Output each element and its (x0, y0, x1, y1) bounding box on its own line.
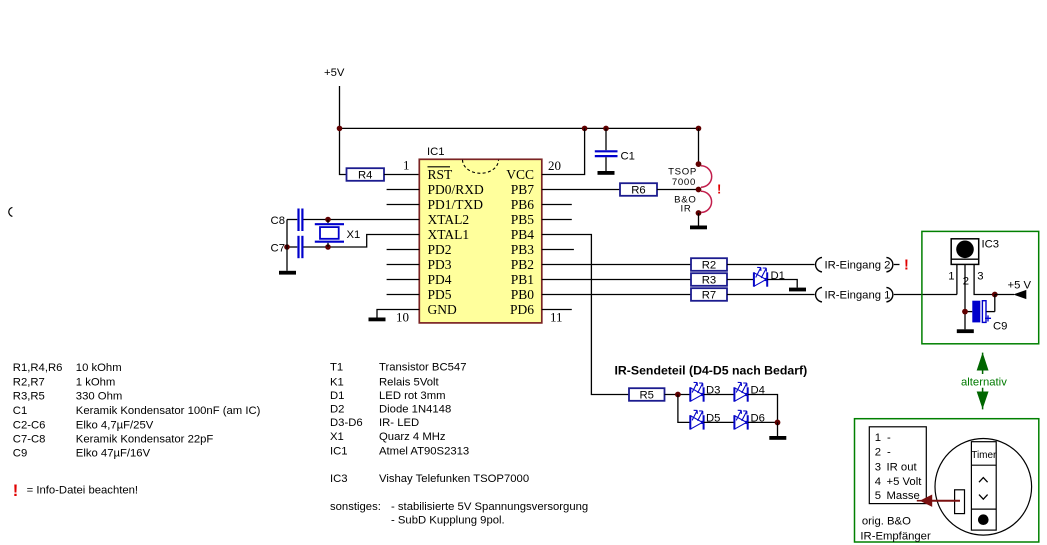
svg-text:IR out: IR out (887, 462, 918, 474)
wire PD6 stub (542, 309, 572, 311)
resistor R6 (620, 183, 657, 197)
svg-text:- SubD Kupplung 9pol.: - SubD Kupplung 9pol. (391, 514, 505, 526)
node LED branch join (775, 420, 781, 426)
wire connector pad bottom to ground (698, 213, 700, 226)
svg-text:!: ! (13, 482, 18, 500)
connector IR-Eingang 1 (816, 287, 893, 302)
wire XTAL2 row (304, 219, 420, 221)
svg-text:PD4: PD4 (428, 272, 452, 287)
ground at D1 (789, 288, 806, 292)
wire PB2 to R2 (542, 264, 691, 266)
svg-text:X1: X1 (330, 431, 344, 443)
ground at IC GND (369, 318, 386, 322)
node LED branch split (675, 392, 681, 398)
LED D4 (734, 382, 748, 401)
svg-text:1: 1 (875, 432, 881, 444)
ground at LED branch (769, 436, 786, 440)
ground at IC3 (957, 329, 974, 333)
svg-text:PD2: PD2 (428, 242, 452, 257)
jumper arc TSOP7000 (701, 166, 712, 187)
svg-text:IR-Eingang 1: IR-Eingang 1 (825, 290, 891, 302)
svg-text:!: ! (717, 182, 721, 197)
svg-text:D3-D6: D3-D6 (330, 417, 363, 429)
parts list left column (13, 362, 261, 460)
label TSOP 7000 (668, 167, 697, 189)
stray parenthesis mark (9, 207, 13, 216)
svg-text:IR-Sendeteil (D4-D5 nach Bedar: IR-Sendeteil (D4-D5 nach Bedarf) (615, 364, 808, 378)
svg-text:D1: D1 (330, 390, 344, 402)
node connector pad middle (696, 187, 702, 193)
svg-text:orig. B&O: orig. B&O (862, 516, 911, 528)
wire PD4 stub (387, 279, 420, 281)
svg-text:- stabilisierte 5V Spannungsve: - stabilisierte 5V Spannungsversorgung (391, 501, 588, 513)
wire R4 to RST pin (384, 174, 419, 176)
svg-text:R7: R7 (702, 290, 716, 302)
receiver keypad column (971, 442, 997, 530)
wire PB1 to R3 (542, 279, 691, 281)
wire R2 to IR-Eingang 2 (727, 264, 815, 266)
svg-text:+5 V: +5 V (1008, 280, 1032, 292)
svg-text:R4: R4 (358, 170, 372, 182)
svg-text:!: ! (904, 258, 909, 274)
wire PD0 stub (387, 189, 420, 191)
svg-text:PB0: PB0 (511, 287, 535, 302)
wire PD5 stub (387, 294, 420, 296)
svg-text:XTAL2: XTAL2 (428, 212, 470, 227)
svg-text:C2-C6: C2-C6 (13, 419, 46, 431)
node junction rail/C1 (603, 126, 609, 132)
svg-text:X1: X1 (347, 229, 361, 241)
svg-text:IC3: IC3 (982, 239, 1000, 251)
svg-text:Diode 1N4148: Diode 1N4148 (379, 404, 451, 416)
wire +5V vertical to R4 (340, 86, 347, 175)
svg-text:PD3: PD3 (428, 257, 452, 272)
svg-text:PB5: PB5 (511, 212, 535, 227)
svg-text:11: 11 (550, 310, 563, 325)
pointer arrow to Masse (917, 495, 960, 506)
svg-text:5: 5 (875, 490, 881, 502)
node connector pad top (696, 161, 702, 167)
svg-text:10 kOhm: 10 kOhm (76, 362, 122, 374)
svg-text:+: + (985, 312, 992, 326)
svg-text:LED rot 3mm: LED rot 3mm (379, 390, 446, 402)
wire IR-Eingang 1 to IC3 pin1 (894, 294, 957, 296)
svg-text:IR-Eingang 2: IR-Eingang 2 (825, 260, 891, 272)
svg-text:1: 1 (403, 158, 410, 173)
svg-text:C1: C1 (621, 151, 635, 163)
svg-text:2: 2 (963, 276, 969, 288)
wire +5V rail (340, 127, 699, 129)
svg-text:+5 Volt: +5 Volt (887, 476, 923, 488)
svg-text:PB6: PB6 (511, 197, 535, 212)
svg-text:IR-Empfänger: IR-Empfänger (860, 531, 931, 543)
svg-text:PB3: PB3 (511, 242, 535, 257)
svg-text:+5V: +5V (324, 67, 345, 79)
receiver side connector (955, 490, 965, 514)
wire PB7 to R6 (542, 189, 620, 191)
wire D1 cathode to ground (767, 280, 797, 288)
node junction on rail at +5V (337, 126, 343, 132)
svg-text:IC1: IC1 (427, 146, 445, 158)
svg-text:C9: C9 (13, 448, 27, 460)
svg-text:GND: GND (428, 302, 457, 317)
svg-text:-: - (887, 432, 891, 444)
alternativ down arrow (978, 388, 988, 410)
svg-text:3: 3 (977, 271, 983, 283)
wire PB3 stub (542, 249, 574, 251)
wire R6 to connector (657, 189, 699, 191)
capacitor C7 (271, 236, 303, 258)
label B&O IR (674, 195, 696, 215)
resistor R7 (691, 288, 727, 302)
svg-text:PB7: PB7 (511, 182, 535, 197)
wire PB4 to R5 (542, 235, 629, 395)
capacitor C9 (965, 295, 1007, 333)
wire PB6 stub (542, 204, 572, 206)
resistor R4 (347, 168, 385, 182)
svg-text:sonstiges:: sonstiges: (330, 501, 381, 513)
svg-text:= Info-Datei beachten!: = Info-Datei beachten! (27, 485, 138, 497)
svg-text:C1: C1 (13, 405, 27, 417)
svg-text:1 kOhm: 1 kOhm (76, 376, 116, 388)
svg-text:Atmel AT90S2313: Atmel AT90S2313 (379, 445, 469, 457)
B&O receiver green frame (855, 419, 1039, 542)
node pin3 +5V junction (992, 292, 998, 298)
wire join to ground (777, 422, 779, 436)
svg-text:R3,R5: R3,R5 (13, 391, 45, 403)
IC3 module green frame (922, 231, 1039, 343)
wire R7 to IR-Eingang 1 (727, 294, 815, 296)
ground at C7/C8 (279, 271, 296, 275)
resistor R3 (691, 273, 727, 287)
wire PB0 to R7 (542, 294, 691, 296)
parts list middle column (330, 362, 588, 527)
svg-text:D2: D2 (330, 404, 344, 416)
svg-text:IC1: IC1 (330, 445, 348, 457)
LED D5 (690, 410, 704, 429)
svg-text:-: - (887, 447, 891, 459)
IC3 pin 1 wire (956, 264, 958, 294)
capacitor C8 (271, 209, 303, 232)
B&O pinout list box (869, 427, 926, 504)
ground at C1 (598, 171, 615, 175)
svg-text:XTAL1: XTAL1 (428, 227, 470, 242)
node C7 left junction (284, 244, 290, 250)
svg-text:4: 4 (875, 476, 881, 488)
svg-text:Timer: Timer (971, 450, 997, 461)
wire branch down to D5 row (678, 395, 690, 423)
svg-text:VCC: VCC (506, 167, 534, 182)
svg-text:20: 20 (548, 158, 561, 173)
wire PB5 stub (542, 219, 572, 221)
svg-text:T1: T1 (330, 362, 343, 374)
wire GND pin to ground (377, 310, 419, 318)
ground at connector (690, 226, 707, 230)
LED D3 (690, 382, 704, 401)
svg-text:PD5: PD5 (428, 287, 452, 302)
wire PD1 stub (387, 204, 420, 206)
svg-text:K1: K1 (330, 376, 344, 388)
node XTAL1 junction (325, 244, 331, 250)
svg-text:Quarz 4 MHz: Quarz 4 MHz (379, 431, 446, 443)
svg-text:IC3: IC3 (330, 473, 348, 485)
svg-text:3: 3 (875, 462, 881, 474)
svg-text:IR- LED: IR- LED (379, 417, 419, 429)
svg-text:R2,R7: R2,R7 (13, 376, 45, 388)
+5V arrow (995, 280, 1032, 300)
LED D1 (754, 267, 768, 286)
resistor R2 (691, 258, 727, 272)
wire PD3 stub (387, 264, 420, 266)
svg-text:10: 10 (396, 310, 409, 325)
svg-text:PB2: PB2 (511, 257, 534, 272)
resistor R5 (629, 388, 665, 402)
svg-text:PB1: PB1 (511, 272, 534, 287)
wire D4 to right leg (748, 395, 778, 423)
svg-text:R3: R3 (702, 275, 716, 287)
node junction rail/VCC (582, 126, 588, 132)
LED D6 (734, 410, 748, 429)
IC1 body (419, 159, 542, 323)
crystal X1 (315, 220, 361, 248)
IC3 pin 3 wire (974, 264, 995, 294)
svg-text:PD1/TXD: PD1/TXD (428, 197, 484, 212)
svg-text:Elko 47µF/16V: Elko 47µF/16V (76, 448, 151, 460)
node pin2/C9 junction (962, 309, 968, 315)
svg-text:1: 1 (948, 271, 954, 283)
svg-text:RST: RST (428, 167, 454, 182)
svg-text:7000: 7000 (672, 177, 696, 188)
svg-text:PD0/RXD: PD0/RXD (428, 182, 485, 197)
svg-text:alternativ: alternativ (961, 376, 1007, 388)
svg-text:Keramik Kondensator 100nF (am: Keramik Kondensator 100nF (am IC) (76, 405, 261, 417)
svg-text:D1: D1 (771, 270, 785, 282)
wire D3 to D4 (704, 394, 735, 396)
wire rail down to connector pad 1 (698, 128, 700, 164)
svg-text:R6: R6 (631, 185, 645, 197)
svg-text:R5: R5 (639, 390, 653, 402)
wire PD2 stub (387, 249, 420, 251)
svg-text:2: 2 (875, 447, 881, 459)
connector IR-Eingang 2 (816, 257, 900, 272)
svg-text:C9: C9 (993, 321, 1007, 333)
svg-text:Relais 5Volt: Relais 5Volt (379, 376, 440, 388)
svg-text:Keramik Kondensator 22pF: Keramik Kondensator 22pF (76, 434, 214, 446)
svg-text:IR: IR (681, 204, 692, 215)
wire D5 to D6 (704, 421, 735, 423)
svg-text:PD6: PD6 (510, 302, 534, 317)
svg-text:C7: C7 (271, 243, 285, 255)
IC1 pin name RST with overline (428, 167, 454, 182)
wire caps left leg to ground (286, 220, 288, 271)
svg-text:R1,R4,R6: R1,R4,R6 (13, 362, 63, 374)
svg-text:Transistor BC547: Transistor BC547 (379, 362, 466, 374)
svg-text:Vishay Telefunken TSOP7000: Vishay Telefunken TSOP7000 (379, 473, 529, 485)
node XTAL2 junction (325, 217, 331, 223)
svg-text:TSOP: TSOP (668, 167, 697, 178)
wire D6 to right leg (748, 421, 778, 423)
svg-text:C7-C8: C7-C8 (13, 434, 46, 446)
IC3 pin 2 wire (964, 264, 966, 329)
svg-text:R2: R2 (702, 260, 716, 272)
svg-text:C8: C8 (271, 215, 285, 227)
svg-text:Elko 4,7µF/25V: Elko 4,7µF/25V (76, 419, 154, 431)
IC3 sensor body (951, 239, 979, 265)
legend info note (13, 482, 138, 500)
B&O receiver circle (935, 439, 1032, 536)
wire R5 to LED branch (665, 394, 691, 396)
svg-text:330 Ohm: 330 Ohm (76, 391, 122, 403)
jumper arc B&O IR (701, 191, 712, 212)
node connector pad bottom (696, 210, 702, 216)
wire VCC pin to rail (542, 128, 585, 174)
alternativ up arrow (978, 353, 988, 374)
wire C7 row to XTAL1 step (304, 235, 420, 248)
capacitor C1 (595, 128, 635, 171)
svg-text:Masse: Masse (887, 490, 920, 502)
node junction rail right end (696, 126, 702, 132)
svg-text:PB4: PB4 (511, 227, 535, 242)
wire R3 to D1 (727, 279, 754, 281)
